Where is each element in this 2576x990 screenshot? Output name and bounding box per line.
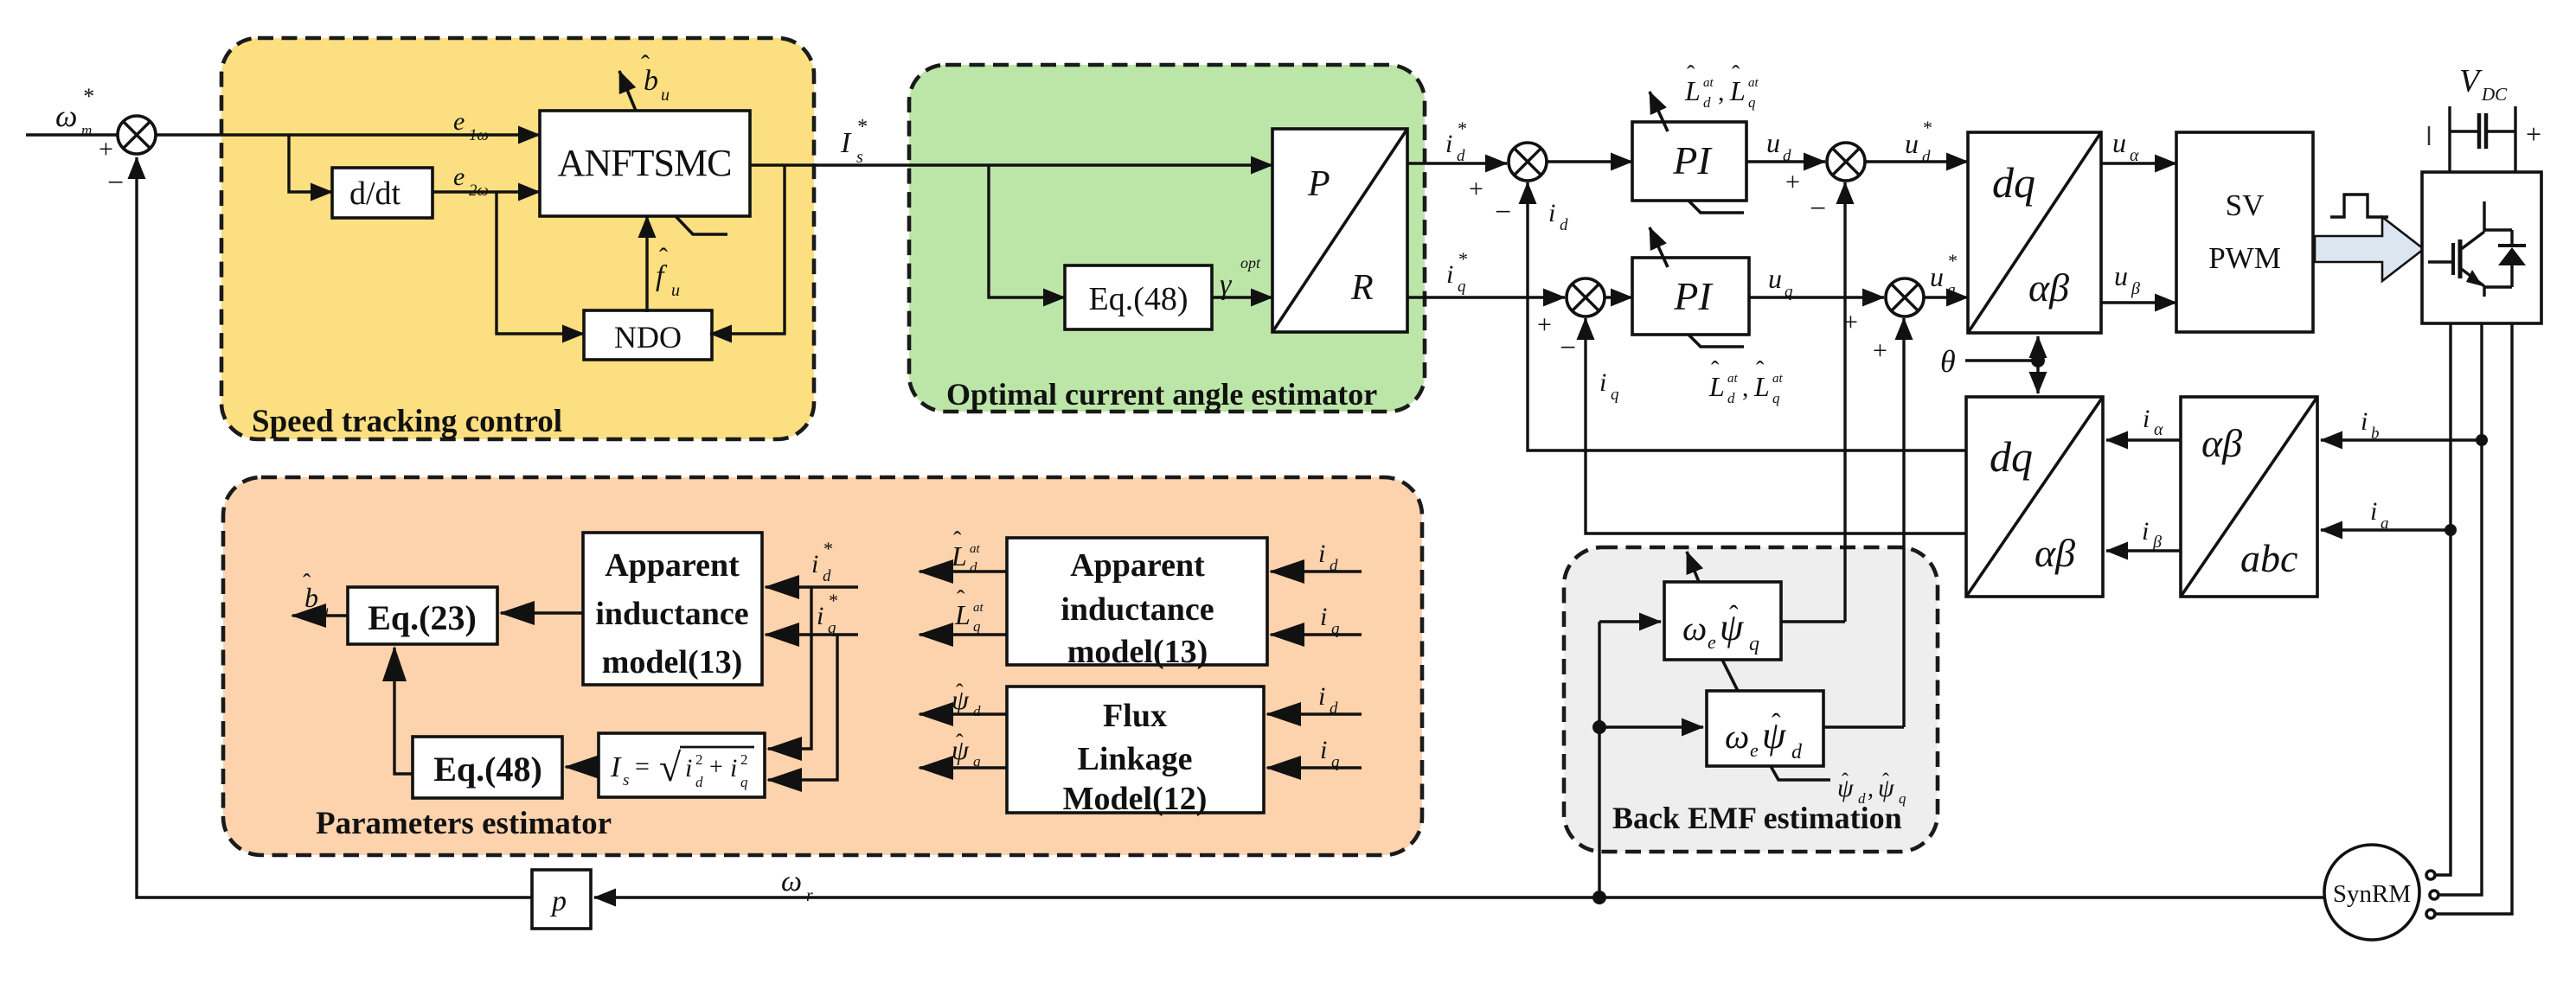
svg-text:PI: PI [1672,138,1713,182]
transistor Q1 (IGBT with diode) [2428,201,2526,297]
block ANFTSMC [540,111,750,216]
svg-text:u: u [321,602,329,619]
ANFTSMC adaptation hook [676,216,727,234]
svg-text:1ω: 1ω [469,126,489,144]
svg-text:ω: ω [55,99,77,133]
svg-text:abc: abc [2240,536,2297,580]
svg-text:DC: DC [2481,84,2508,105]
svg-text:*: * [828,590,837,611]
svg-text:ˆ: ˆ [1882,770,1889,793]
svg-text:u: u [1766,127,1780,158]
svg-text:dq: dq [1992,158,2035,207]
wire: psi_q output to S3 riser [1781,620,1845,623]
svg-text:d: d [1560,216,1568,234]
wire: i_q into apparent inductance model right [1271,633,1362,636]
node omega_r label [781,865,813,905]
svg-text:*: * [1922,117,1932,138]
node psi_q hat label [952,730,981,770]
block Eq.(23) [348,587,497,644]
svg-text:r: r [806,886,813,905]
wire: Eq.(48) up into Eq.(23) [394,648,413,774]
svg-text:ˆ: ˆ [1772,707,1781,738]
svg-text:β: β [2131,279,2140,298]
node b_u hat label [641,50,670,105]
wire: apparent inductance model to Eq.(23) [501,611,583,614]
svg-text:d: d [1330,557,1338,575]
svg-text:at: at [1727,372,1739,386]
svg-text:q: q [1458,278,1466,296]
svg-text:*: * [1457,118,1466,139]
svg-text:,: , [1742,374,1749,402]
svg-text:i: i [1599,368,1606,397]
block P/R polar converter [1272,129,1407,332]
svg-text:d/dt: d/dt [349,176,401,212]
svg-text:NDO: NDO [614,320,682,354]
svg-text:Apparent: Apparent [605,547,740,584]
svg-text:V: V [2459,63,2483,99]
svg-text:ˆ: ˆ [659,243,668,271]
svg-text:2: 2 [740,751,748,768]
svg-text:at: at [970,542,981,556]
motor SynRM [2324,845,2419,940]
block arrow SVPWM to inverter [2315,217,2424,281]
node iq* label (orange) [817,590,837,637]
svg-text:u: u [1905,128,1919,159]
block inverter [2422,172,2541,323]
svg-text:d: d [973,703,981,719]
svg-text:q: q [1331,753,1340,771]
svg-text:i: i [2370,497,2377,526]
wire: back-emf d compensation up into S4 [1902,318,1905,727]
region: Speed tracking control (yellow dashed) [221,38,814,439]
node u_alpha label [2112,127,2139,165]
wire: i_d feedback from lower dq/ab to S1 [1528,182,1966,450]
svg-text:i: i [2361,407,2368,436]
wire: adaptation arrow out of psi_q block top [1687,552,1699,582]
svg-text:d: d [823,567,831,585]
node Is* label [840,116,867,167]
node i_q label [1599,368,1619,404]
block omega_e psi_q hat [1664,582,1781,660]
junction omega_e node [1592,720,1606,734]
svg-text:2: 2 [695,751,703,768]
svg-text:e: e [1750,739,1759,761]
svg-text:ˆ: ˆ [641,50,650,79]
svg-text:q: q [1611,386,1619,404]
svg-text:Model(12): Model(12) [1063,781,1208,817]
junction speed to back-emf [1592,891,1606,904]
block omega_e psi_d hat [1707,691,1823,766]
svg-text:i: i [1320,603,1327,631]
svg-text:Eq.(48): Eq.(48) [1088,281,1188,317]
wire: omega_e into psi_q block [1599,620,1661,623]
wire: Ld hat output from apparent inductance model (right) [920,570,1007,572]
svg-text:+: + [2526,118,2541,150]
svg-text:d: d [1858,790,1866,807]
svg-text:ˆ: ˆ [953,527,962,554]
svg-text:e: e [453,163,465,191]
svg-text:i: i [1320,736,1327,764]
svg-text:at: at [1703,76,1714,90]
svg-text:u: u [1930,261,1944,292]
svg-text:ˆ: ˆ [957,586,965,613]
svg-text:ˆ: ˆ [956,680,964,705]
node id* label (orange) [811,538,832,585]
block Eq.(48) angle [1065,265,1212,329]
wire: phase c line from inverter to SynRM [2436,323,2512,914]
summing junction S4 (q-axis voltage) [1843,278,1924,365]
block apparent inductance model (left) [583,533,762,685]
svg-text:Speed tracking control: Speed tracking control [252,404,562,439]
wire: theta up into upper dq/ab [2036,336,2039,361]
node i_b label [2361,407,2380,443]
node f_u hat label [656,243,680,300]
wire: i_d into flux linkage model [1267,712,1362,715]
svg-text:q: q [973,618,981,635]
svg-text:q: q [1749,633,1759,655]
wire: PI d adaptation arrow [1650,92,1668,131]
svg-text:+: + [99,135,113,163]
summing junction S1 (d-axis current) [1469,143,1547,228]
wire: NDO output f_u hat up into ANFTSMC [645,216,648,312]
svg-text:Optimal current angle estimato: Optimal current angle estimator [946,377,1377,412]
svg-text:+: + [709,754,723,781]
SynRM terminal b [2430,891,2438,899]
svg-text:ω: ω [781,865,802,897]
wire: iq* from R to sum S2 [1407,296,1565,298]
block dq/alphabeta (voltage transform) [1968,132,2101,333]
svg-text:Linkage: Linkage [1077,741,1192,777]
svg-text:−: − [1810,193,1826,225]
svg-text:opt: opt [1240,254,1261,271]
svg-text:q: q [740,774,748,790]
wire: i_q into flux linkage model [1267,766,1362,769]
block PI d-axis [1632,122,1746,201]
region: Optimal current angle estimator (green dashed) [909,65,1425,412]
wire: i_b measurement into abc transform [2321,438,2482,441]
node i_a label [2370,497,2389,533]
wire: speed feedback from SynRM to p block [594,896,2324,898]
junction i_b tap [2476,434,2488,446]
wire: psi_d output to S4 riser [1823,725,1904,728]
block Is = sqrt(id*2+iq*2) [599,733,765,797]
wire: i_beta from abc transform to dq transform [2106,549,2181,552]
block d/dt [332,168,433,218]
wire: u_q from PI q to sum S4 [1749,296,1884,298]
svg-text:αβ: αβ [2201,421,2242,465]
svg-text:I: I [610,751,622,783]
wire: branch from e2w down to NDO input [497,192,584,334]
node e_1w label [453,107,489,144]
svg-text:a: a [2381,514,2389,533]
svg-text:γ: γ [1220,269,1233,301]
gate pulse symbol [2330,195,2388,217]
svg-text:at: at [1748,76,1759,90]
svg-text:b: b [2371,425,2380,443]
DC link rails and capacitor [2429,106,2541,172]
svg-text:i: i [811,550,818,578]
wire: phase a line from inverter to SynRM [2436,323,2451,875]
svg-text:i: i [1548,199,1555,227]
wire: S2 to PI q [1605,296,1632,298]
svg-text:*: * [82,84,93,109]
junction theta node [2031,354,2045,367]
wire: connector psi_q to psi_d block [1722,660,1738,691]
block alphabeta/abc (Clarke transform) [2181,397,2317,597]
node e_2w label [453,163,489,200]
svg-text:d: d [695,774,703,790]
svg-text:Parameters estimator: Parameters estimator [316,806,612,841]
wire: id* drop into Is magnitude block [768,587,811,749]
svg-text:i: i [685,754,692,782]
svg-text:+: + [1873,336,1887,365]
svg-text:−: − [1495,196,1511,228]
svg-text:SV: SV [2226,188,2265,222]
svg-text:i: i [730,754,737,782]
svg-text:ˆ: ˆ [956,730,964,755]
svg-text:d: d [1330,699,1338,718]
svg-text:ˆ: ˆ [1687,61,1695,88]
svg-text:+: + [1469,175,1483,203]
svg-text:i: i [2143,405,2150,433]
svg-text:q: q [1947,281,1956,299]
svg-text:u: u [2114,260,2128,291]
wire: theta to transforms [1965,359,2038,362]
svg-text:β: β [2152,533,2162,552]
node i_beta label [2142,517,2162,552]
wire: id* from P to sum S1 [1407,162,1507,164]
svg-text:model(13): model(13) [1067,634,1208,670]
node Ld,Lq hat label (top) [1684,61,1759,111]
svg-text:SynRM: SynRM [2333,880,2411,908]
wire: b_u hat adaptation arrow out of ANFTSMC top [619,71,636,111]
svg-text:ˆ: ˆ [1756,357,1765,384]
block NDO [584,310,712,360]
wire: id* stub into apparent inductance model [766,585,858,588]
svg-text:+: + [1785,168,1800,196]
wire: i_d into apparent inductance model right [1271,570,1362,572]
svg-text:q: q [828,619,836,637]
summing junction S3 (d-axis voltage) [1785,143,1865,225]
svg-text:ˆ: ˆ [303,570,311,597]
svg-text:i: i [1318,540,1325,568]
svg-text:ANFTSMC: ANFTSMC [558,142,732,184]
svg-text:Eq.(48): Eq.(48) [433,750,542,789]
wire: ud* from S3 to dq/ab [1865,160,1968,163]
svg-text:q: q [1899,790,1906,807]
wire: S0 to ANFTSMC (e1w) [156,133,540,136]
block dq/alphabeta (current transform) [1966,397,2103,597]
PI q adaptation hook [1688,335,1744,347]
node b_u hat label (orange box) [303,570,329,619]
svg-text:2ω: 2ω [469,182,489,200]
wire: omega_e feed up from speed line [1598,622,1600,897]
wire: u_alpha to SVPWM [2101,162,2176,164]
wire: theta down into lower dq/ab [2036,361,2039,393]
node u_d label [1766,127,1791,165]
wire: PI q adaptation arrow [1650,227,1668,267]
node Lq hat label [954,586,984,635]
node Ld,Lq hat label (bottom) [1708,357,1784,406]
node psi_d,psi_q hat label [1837,770,1906,807]
svg-text:q: q [973,753,981,770]
node psi_d hat label [952,680,981,719]
wire: i_q feedback from lower dq/ab to S2 [1586,318,1966,533]
svg-text:i: i [2142,517,2149,546]
wire: Lq hat output from apparent inductance model (right) [920,633,1007,636]
svg-text:Apparent: Apparent [1070,547,1205,584]
wire: psi_d hat output from flux linkage model [920,712,1007,715]
block apparent inductance model (right) [1007,538,1267,670]
svg-text:inductance: inductance [1061,591,1214,628]
wire: branch down to d/dt [289,135,332,192]
svg-text:*: * [856,116,867,138]
svg-text:q: q [1772,390,1780,406]
svg-text:ω: ω [1725,717,1749,756]
PI d adaptation hook [1688,201,1744,213]
node iq* label [1446,248,1467,296]
svg-text:d: d [1783,147,1791,165]
node id* label [1445,118,1466,165]
svg-text:ˆ: ˆ [1711,357,1720,384]
svg-text:*: * [1458,248,1467,270]
svg-text:−: − [107,167,124,199]
svg-text:−: − [1560,332,1576,364]
wire: u_beta to SVPWM [2101,301,2176,303]
svg-text:s: s [856,148,863,167]
svg-text:θ: θ [1940,344,1956,379]
svg-text:inductance: inductance [595,596,748,632]
svg-text:R: R [1350,268,1374,308]
svg-text:αβ: αβ [2035,531,2075,575]
svg-text:u: u [2112,127,2126,158]
svg-text:dq: dq [1990,432,2033,481]
svg-text:u: u [661,86,670,105]
wire: Is block to Eq.(48) [566,765,599,768]
svg-text:i: i [1445,130,1452,158]
svg-text:ω: ω [1682,609,1707,648]
svg-text:ˆ: ˆ [1732,61,1740,88]
svg-text:α: α [2130,146,2139,165]
svg-text:=: = [635,752,650,781]
summing junction S2 (q-axis current) [1537,278,1605,364]
svg-text:d: d [1922,148,1931,166]
junction i_a tap [2445,524,2457,536]
wire: u_d from PI d to sum S3 [1746,160,1825,163]
node u_beta label [2114,260,2140,298]
svg-text:ˆ: ˆ [1729,599,1739,630]
svg-text:d: d [970,559,977,576]
node i_d label (flux) [1318,682,1338,718]
svg-text:u: u [1768,263,1782,294]
svg-text:+: + [1537,310,1552,339]
svg-text:P: P [1307,164,1330,204]
svg-text:d: d [1703,94,1711,111]
wire: psi_q hat output from flux linkage model [920,766,1007,769]
region: Parameters estimator (orange dashed) [223,477,1422,855]
svg-text:p: p [550,885,567,917]
wire: p output to speed sum S0 [137,157,532,897]
SynRM terminal c [2426,910,2435,918]
svg-text:q: q [1748,94,1756,111]
svg-text:d: d [1457,147,1465,165]
wire: i_a measurement into abc transform [2321,528,2451,531]
svg-text:α: α [2154,420,2163,439]
wire: branch down from Is* line into NDO right side [710,165,785,334]
svg-text:αβ: αβ [2028,265,2069,310]
svg-text:model(13): model(13) [602,644,743,680]
svg-text:d: d [1791,741,1803,763]
svg-text:q: q [1785,283,1793,301]
svg-text:,: , [1868,776,1874,802]
wire: omega ref into sum S0 [26,133,118,136]
wire: i_alpha from abc transform to dq transform [2106,438,2181,441]
svg-text:i: i [817,602,823,630]
block Eq.(48) (parameters) [413,737,562,798]
node i_q label (flux) [1320,736,1340,771]
svg-text:ˆ: ˆ [1842,770,1849,793]
SynRM terminal a [2426,871,2435,879]
svg-text:at: at [1772,372,1784,386]
node V_DC label [2459,63,2508,105]
wire: back-emf q compensation up into S3 [1843,182,1846,622]
wire: b_u hat output arrow from Eq.(23) [292,614,348,616]
svg-text:i: i [1446,260,1453,289]
svg-text:d: d [1727,390,1735,406]
svg-text:Eq.(23): Eq.(23) [368,598,477,637]
region: Back EMF estimation (gray dashed) [1564,547,1938,852]
svg-text:PI: PI [1673,274,1714,318]
wire: phase b line from inverter to SynRM [2439,323,2482,895]
wire: d/dt to ANFTSMC (e2w) [433,190,540,193]
wire: ANFTSMC output Is* to P/R block [750,163,1272,166]
svg-text:Flux: Flux [1103,698,1167,734]
block flux linkage model [1007,687,1264,817]
wire: iq* stub into apparent inductance model [766,633,858,636]
block PI q-axis [1632,258,1749,335]
node ud* label [1905,117,1932,166]
svg-text:q: q [1331,620,1340,638]
svg-text:e: e [453,107,465,136]
summing junction S0 [99,116,156,199]
wire: branch down to Eq.(48) inside green box [989,165,1065,297]
node i_d label (apparent) [1318,540,1338,575]
node uq* label [1930,250,1957,299]
psi_d hook [1771,766,1830,780]
wire: iq* drop into Is magnitude block [768,635,837,780]
wire: S1 to PI d [1547,160,1632,163]
node u_q label [1768,263,1793,301]
block SV PWM [2176,132,2313,332]
svg-text:*: * [1947,250,1957,271]
svg-text:,: , [1718,78,1725,106]
wire: omega_e into psi_d block [1599,725,1703,728]
node i_d label [1548,199,1568,234]
node Ld hat label [951,527,981,576]
svg-text:at: at [973,601,984,615]
svg-text:e: e [1708,631,1716,653]
node i_q label (apparent) [1320,603,1340,638]
svg-text:i: i [1318,682,1325,711]
node gamma_opt label [1220,254,1261,301]
svg-text:s: s [623,771,629,789]
node omega_m* reference label [55,84,93,138]
svg-text:I: I [840,127,852,159]
svg-text:u: u [671,281,680,300]
svg-text:*: * [823,538,832,559]
block p (pole pairs) [532,870,591,929]
node i_alpha label [2143,405,2163,439]
